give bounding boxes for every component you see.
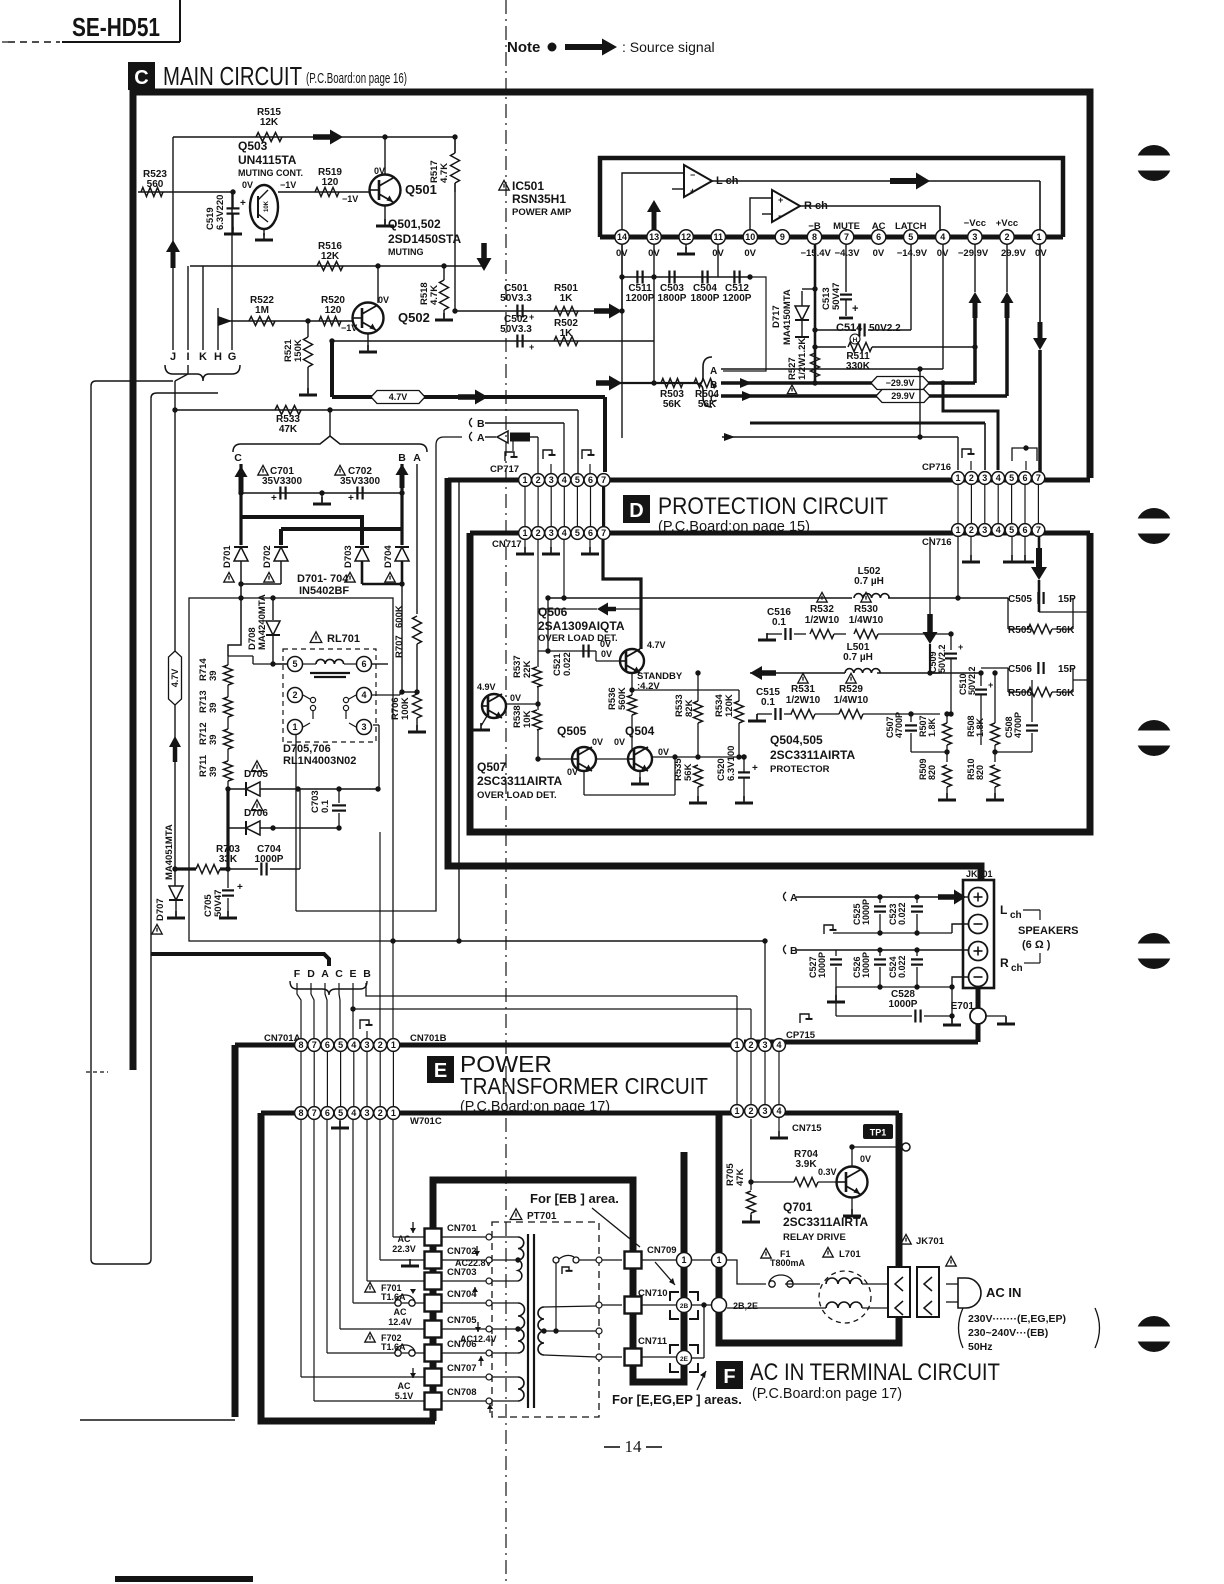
svg-text:D703: D703 xyxy=(343,545,354,568)
wire CN711 to 2E xyxy=(642,1356,676,1358)
svg-text:MUTING CONT.: MUTING CONT. xyxy=(238,168,303,178)
wire Q501 collector xyxy=(384,137,386,174)
wire thick chain D705-D706 xyxy=(226,789,229,828)
svg-text:−29.9V: −29.9V xyxy=(958,248,989,259)
svg-text:120: 120 xyxy=(322,177,339,188)
svg-text:SPEAKERS: SPEAKERS xyxy=(1018,925,1079,937)
svg-text:CN711: CN711 xyxy=(638,1336,668,1347)
wires CN715 risers xyxy=(736,1052,738,1104)
brace for nodes A B C xyxy=(697,357,712,407)
svg-text:L: L xyxy=(1000,903,1007,917)
arrow down into C501 area xyxy=(477,243,492,271)
wire Q501 emitter xyxy=(384,206,386,224)
svg-text:56K: 56K xyxy=(1056,625,1075,636)
IC501 power amp box xyxy=(600,158,1063,237)
svg-text:120K: 120K xyxy=(724,694,735,717)
capacitor C512 xyxy=(733,271,735,284)
svg-text:H: H xyxy=(853,337,858,344)
svg-text:+: + xyxy=(529,312,534,322)
svg-text:B: B xyxy=(477,418,485,430)
diode D701 xyxy=(234,547,248,561)
svg-text:CN705: CN705 xyxy=(447,1315,477,1326)
svg-text:JK701: JK701 xyxy=(916,1236,945,1247)
wires R533 R534 stubs xyxy=(697,673,699,701)
svg-text:CP715: CP715 xyxy=(786,1030,816,1041)
svg-text:2SC3311AIRTA: 2SC3311AIRTA xyxy=(770,748,855,762)
wire Q502 base row xyxy=(218,320,352,322)
ground Q504 xyxy=(639,771,641,782)
wire B descend to CP716 pin3 xyxy=(750,422,985,425)
svg-text:L701: L701 xyxy=(839,1249,861,1260)
diode D706 xyxy=(228,827,245,829)
svg-text:39: 39 xyxy=(208,766,219,777)
svg-text:2: 2 xyxy=(1004,232,1009,242)
wire relay contact 1 to A-net xyxy=(295,735,297,911)
wire chain top to relay pin5 row xyxy=(227,656,229,660)
svg-text:Q505: Q505 xyxy=(557,724,587,738)
svg-text:T1.6A: T1.6A xyxy=(381,1342,406,1352)
wire C rail thick xyxy=(721,394,1007,398)
relay coil xyxy=(316,659,344,664)
svg-text:D705: D705 xyxy=(244,769,268,780)
svg-text:−: − xyxy=(690,170,695,180)
section label D xyxy=(623,495,650,523)
svg-text:A: A xyxy=(477,432,485,444)
svg-text:39: 39 xyxy=(208,670,219,681)
relay pin 1 xyxy=(288,720,303,735)
svg-text:SE-HD51: SE-HD51 xyxy=(72,12,160,42)
svg-text:1M: 1M xyxy=(255,305,269,316)
speaker jack JK501 box xyxy=(963,880,994,988)
svg-text:1K: 1K xyxy=(560,293,574,304)
svg-text:TRANSFORMER CIRCUIT: TRANSFORMER CIRCUIT xyxy=(460,1073,708,1099)
svg-text:+: + xyxy=(240,198,246,209)
svg-text:4.7K: 4.7K xyxy=(439,163,450,183)
svg-text:D701- 704: D701- 704 xyxy=(297,573,349,585)
resistor R529 xyxy=(846,673,856,683)
svg-text:50V3.3: 50V3.3 xyxy=(500,293,532,304)
svg-text:R505: R505 xyxy=(1008,625,1032,636)
svg-text:T800mA: T800mA xyxy=(770,1258,806,1268)
capacitor C504 xyxy=(701,271,703,284)
svg-text:CN702: CN702 xyxy=(447,1246,477,1257)
inductor L701 xyxy=(823,1247,833,1257)
svg-text:F: F xyxy=(294,968,301,980)
resistor R530 xyxy=(861,592,871,602)
wire to left rail J xyxy=(91,381,218,1264)
wire right verticals xyxy=(940,633,951,635)
svg-text:1: 1 xyxy=(522,528,527,538)
wires W701C into transformer xyxy=(392,1120,394,1237)
svg-text:600K: 600K xyxy=(394,605,405,628)
svg-text:ch: ch xyxy=(1011,963,1023,974)
ground Q701 xyxy=(851,1209,853,1216)
resistor R520 xyxy=(319,317,341,326)
ground D707 xyxy=(175,911,177,918)
connector pad CN709 xyxy=(625,1252,642,1269)
svg-text:3: 3 xyxy=(982,525,987,535)
resistor R538 xyxy=(533,710,542,730)
relay RL701 dashed box xyxy=(283,649,376,742)
svg-text:50Hz: 50Hz xyxy=(968,1341,993,1353)
arrow up on J riser xyxy=(166,240,180,268)
capacitor C502 row wire xyxy=(332,340,654,342)
source arrow L out xyxy=(890,173,930,190)
wire pin13 riser xyxy=(653,244,655,341)
fuse F1 xyxy=(761,1248,771,1258)
svg-text:+: + xyxy=(271,493,277,504)
resistor R502 xyxy=(554,337,578,346)
transistor Q504 xyxy=(628,747,652,771)
svg-text:J: J xyxy=(170,351,176,363)
svg-text:−B: −B xyxy=(808,221,821,232)
relay pin 4 xyxy=(357,688,372,703)
capacitor C511 xyxy=(636,271,638,284)
svg-text:CN707: CN707 xyxy=(447,1363,477,1374)
svg-text:5: 5 xyxy=(575,528,580,538)
wire CN710 line xyxy=(602,1304,622,1306)
resistor R533 xyxy=(275,406,301,415)
arrow down to C509 xyxy=(923,614,938,644)
svg-text:2B,2E: 2B,2E xyxy=(733,1301,758,1311)
section label E xyxy=(427,1056,454,1083)
arrow C rail xyxy=(742,391,754,401)
svg-text:56K: 56K xyxy=(1056,688,1075,699)
svg-text:0V: 0V xyxy=(860,1154,871,1164)
wire Q503 base row xyxy=(138,191,232,193)
svg-text:AC12.4V: AC12.4V xyxy=(460,1334,497,1344)
svg-text:D705,706: D705,706 xyxy=(283,743,331,755)
svg-text:5: 5 xyxy=(338,1108,343,1118)
source arrow mid row xyxy=(750,666,776,680)
svg-text:AC: AC xyxy=(398,1381,411,1391)
svg-text:5: 5 xyxy=(338,1040,343,1050)
svg-text:7: 7 xyxy=(1036,525,1041,535)
diode D717 xyxy=(795,306,809,320)
svg-text:56K: 56K xyxy=(663,399,682,410)
ground symbol above CP715 xyxy=(800,1017,809,1026)
wire riser x151 lower xyxy=(150,954,152,1264)
arrow down CN716 pin7 xyxy=(1038,537,1041,548)
svg-text:H: H xyxy=(214,351,222,363)
svg-text:MA4240MTA: MA4240MTA xyxy=(257,594,268,650)
wire K riser xyxy=(202,266,204,350)
ground Q501 xyxy=(384,219,386,226)
svg-text:JK501: JK501 xyxy=(966,869,993,879)
svg-text:5: 5 xyxy=(1009,525,1014,535)
thick 4.7V drop to CP717 pin7 xyxy=(603,397,607,472)
wire A rail xyxy=(721,368,943,370)
svg-text:E: E xyxy=(434,1060,447,1082)
svg-text:1/2W10: 1/2W10 xyxy=(805,615,840,626)
node circle 2E xyxy=(677,1351,692,1366)
capacitor C702 xyxy=(356,487,358,500)
wire H riser xyxy=(217,308,219,350)
svg-text:1.8K: 1.8K xyxy=(927,717,937,737)
svg-text:10K: 10K xyxy=(264,200,270,212)
ground lower rail xyxy=(835,987,837,1000)
ground C705 xyxy=(227,911,229,918)
svg-text:29.9V: 29.9V xyxy=(1001,248,1026,259)
svg-text:1200P: 1200P xyxy=(723,293,752,304)
source arrow C501 row xyxy=(594,304,622,319)
svg-text:820: 820 xyxy=(975,765,985,780)
IC501 labels xyxy=(499,180,509,190)
wire loop around labels xyxy=(723,277,766,371)
arrow CN708 xyxy=(489,1404,491,1413)
wire D703 D704 bottoms xyxy=(361,561,364,584)
resistor R711 xyxy=(224,761,233,781)
wires CN701A to W701C risers xyxy=(300,1052,302,1106)
arrow up B rail xyxy=(396,464,409,488)
relay pin 5 xyxy=(288,657,303,672)
svg-text:22K: 22K xyxy=(522,660,533,678)
svg-text:6: 6 xyxy=(876,232,881,242)
wire relay enclosure to CN701A pin1 xyxy=(392,941,394,1038)
svg-text:13: 13 xyxy=(649,232,659,242)
wire R705 to R704 xyxy=(751,1181,758,1183)
svg-text:D707: D707 xyxy=(155,898,166,921)
svg-text:120: 120 xyxy=(325,305,342,316)
protection circuit outer border xyxy=(448,478,981,884)
resistor R518 xyxy=(440,280,449,310)
wire A with diode xyxy=(485,436,496,438)
svg-text:C505: C505 xyxy=(1008,594,1032,605)
resistor R519 xyxy=(315,188,339,197)
svg-text:35V3300: 35V3300 xyxy=(340,476,380,487)
svg-text:C: C xyxy=(335,968,343,980)
arrow on A feed xyxy=(724,433,735,441)
svg-text:+: + xyxy=(237,882,243,893)
svg-text:D: D xyxy=(629,500,643,522)
wire CN711 line xyxy=(602,1356,622,1358)
svg-text:0V: 0V xyxy=(374,166,385,176)
svg-text:9: 9 xyxy=(780,232,785,242)
thick rail to D703 xyxy=(241,517,362,545)
svg-text:35V3300: 35V3300 xyxy=(262,476,302,487)
svg-text:PROTECTOR: PROTECTOR xyxy=(770,764,830,775)
svg-text:12: 12 xyxy=(681,232,691,242)
svg-text:12.4V: 12.4V xyxy=(388,1317,412,1327)
resistor R536 xyxy=(628,695,637,715)
wire opamp L input xyxy=(622,173,684,230)
svg-text:56K: 56K xyxy=(683,763,694,781)
arrow CN709 to CN710 xyxy=(655,1262,675,1285)
wire pin4 drop to A xyxy=(942,244,944,369)
svg-text:ch: ch xyxy=(1010,910,1022,921)
svg-text:D706: D706 xyxy=(244,808,268,819)
svg-text:Q504: Q504 xyxy=(625,724,655,738)
E inner left edge and bottom xyxy=(261,1113,435,1421)
wire E letter riser to pin4 xyxy=(352,983,354,1038)
wire I riser xyxy=(187,266,189,350)
svg-text:2: 2 xyxy=(536,475,541,485)
wire C521 row xyxy=(538,650,596,652)
svg-text:0V: 0V xyxy=(601,649,612,659)
capacitor C501 row wire xyxy=(455,310,594,312)
diode D708 xyxy=(272,598,274,620)
diode D717 wire xyxy=(802,288,815,290)
svg-text:0.022: 0.022 xyxy=(562,652,573,676)
thick 4.7V horizontal xyxy=(332,395,605,399)
svg-text:(P.C.Board:on page 17): (P.C.Board:on page 17) xyxy=(752,1385,902,1402)
connector pad CN710 xyxy=(625,1297,642,1314)
wire R516 row xyxy=(190,265,486,267)
ground center C701 C702 xyxy=(321,493,323,502)
svg-text:2: 2 xyxy=(536,528,541,538)
grounds below CN717 xyxy=(524,540,526,552)
wire CN709 to circle xyxy=(642,1259,676,1261)
rail CN717/CN716 xyxy=(470,531,1090,536)
svg-text:0V: 0V xyxy=(744,248,756,259)
svg-text:1: 1 xyxy=(716,1255,721,1265)
svg-text:4.7K: 4.7K xyxy=(429,285,440,305)
svg-text:5: 5 xyxy=(1009,473,1014,483)
arrow on 4.7V xyxy=(458,390,488,405)
svg-text:R: R xyxy=(1000,956,1009,970)
ground R705 xyxy=(750,1215,752,1222)
svg-text:4: 4 xyxy=(562,475,567,485)
svg-text:2SD1450STA: 2SD1450STA xyxy=(388,232,461,246)
svg-text:G: G xyxy=(228,351,237,363)
svg-text:1: 1 xyxy=(955,473,960,483)
svg-text:820: 820 xyxy=(927,765,937,780)
svg-text:5: 5 xyxy=(575,475,580,485)
svg-text:IN5402BF: IN5402BF xyxy=(299,585,349,597)
ground C515 xyxy=(756,714,758,719)
wire R535 bottom xyxy=(697,757,699,765)
svg-text:230V·······(E,EG,EP): 230V·······(E,EG,EP) xyxy=(968,1313,1066,1325)
wire Q507 emitter xyxy=(481,716,487,726)
svg-text:560K: 560K xyxy=(617,687,628,710)
diode D703 xyxy=(355,547,369,561)
svg-text:MUTING: MUTING xyxy=(388,247,424,257)
svg-text:−Vcc: −Vcc xyxy=(964,218,986,229)
svg-text:1000P: 1000P xyxy=(255,854,284,865)
ground C528 node xyxy=(949,1013,954,1018)
ground R535 xyxy=(697,796,699,803)
svg-text:A: A xyxy=(710,366,717,377)
svg-text:C: C xyxy=(234,452,242,464)
wire pin14 drop xyxy=(621,244,623,311)
svg-text:3: 3 xyxy=(762,1040,767,1050)
svg-text:3: 3 xyxy=(364,1040,369,1050)
resistor R511 xyxy=(815,346,846,348)
svg-text:E701: E701 xyxy=(951,1001,975,1012)
resistor R537 xyxy=(533,667,542,687)
relay pin 3 xyxy=(357,720,372,735)
svg-text:(P.C.Board:on page 15): (P.C.Board:on page 15) xyxy=(658,518,810,535)
ground Q502 xyxy=(367,345,369,352)
ground pin12 xyxy=(685,244,687,252)
svg-text:15P: 15P xyxy=(1058,664,1076,675)
svg-text:0.022: 0.022 xyxy=(897,955,907,978)
wire pin11 drop xyxy=(717,244,719,277)
wire B rail down xyxy=(400,464,403,545)
svg-text:7: 7 xyxy=(601,475,606,485)
svg-text:D702: D702 xyxy=(262,545,273,568)
wire CN710 to 2B xyxy=(642,1304,676,1306)
svg-text:+: + xyxy=(988,680,993,690)
svg-text:RELAY DRIVE: RELAY DRIVE xyxy=(783,1232,846,1243)
op-amp R ch xyxy=(772,190,800,222)
svg-text:1000P: 1000P xyxy=(889,999,918,1010)
svg-text:AC: AC xyxy=(872,221,886,232)
wire JK501 minus R xyxy=(952,977,968,987)
protection circuit inner box xyxy=(470,533,1090,832)
net label -29.9V xyxy=(871,377,929,390)
JK501 terminal + R xyxy=(969,942,988,961)
svg-text:CN717: CN717 xyxy=(492,539,522,550)
svg-text:PROTECTION CIRCUIT: PROTECTION CIRCUIT xyxy=(658,493,888,520)
relay contact left xyxy=(303,695,310,699)
svg-text:0.7 µH: 0.7 µH xyxy=(854,576,884,587)
brace under JIKHG xyxy=(165,365,240,381)
svg-text:0V: 0V xyxy=(648,248,660,259)
wires L701 to JK701 xyxy=(862,1283,888,1285)
source signal arrow R515 row xyxy=(313,130,343,145)
svg-text:7: 7 xyxy=(844,232,849,242)
thick rail JK501 to CP715 xyxy=(744,1040,978,1045)
svg-text:D704: D704 xyxy=(383,545,394,568)
svg-text:50V2.2: 50V2.2 xyxy=(869,323,901,334)
svg-text:2: 2 xyxy=(292,690,297,700)
svg-text:+: + xyxy=(958,642,963,652)
svg-text:6: 6 xyxy=(361,659,366,669)
svg-text:AC IN TERMINAL CIRCUIT: AC IN TERMINAL CIRCUIT xyxy=(750,1359,1000,1386)
svg-text:2: 2 xyxy=(378,1040,383,1050)
svg-text:MUTE: MUTE xyxy=(833,221,860,232)
svg-text:MAIN CIRCUIT: MAIN CIRCUIT xyxy=(163,61,302,91)
svg-text:CN710: CN710 xyxy=(638,1288,668,1299)
node junction Q501 collector xyxy=(382,134,387,139)
wire upper filter row xyxy=(548,597,1008,599)
svg-text:6: 6 xyxy=(325,1040,330,1050)
svg-text:0V: 0V xyxy=(658,747,669,757)
wire G riser xyxy=(231,192,233,350)
svg-text:8: 8 xyxy=(298,1108,303,1118)
capacitor C701 xyxy=(279,487,281,500)
thick 4.7V riser through pin7 xyxy=(602,487,605,526)
svg-text:CP716: CP716 xyxy=(922,462,951,473)
svg-text:POWER AMP: POWER AMP xyxy=(512,207,572,218)
svg-text:14: 14 xyxy=(617,232,627,242)
svg-text:+: + xyxy=(852,303,858,315)
transformer PT701 label xyxy=(510,1209,522,1220)
wire pin8 drop thick xyxy=(814,244,817,383)
svg-text:2: 2 xyxy=(378,1108,383,1118)
svg-text:C: C xyxy=(134,67,148,89)
svg-text:4: 4 xyxy=(361,690,366,700)
svg-text:1: 1 xyxy=(1037,232,1042,242)
wires CP717-CN717 risers xyxy=(524,487,526,526)
svg-text:3: 3 xyxy=(762,1106,767,1116)
svg-text:CN701B: CN701B xyxy=(410,1033,447,1044)
wire resistor chain xyxy=(227,660,229,665)
svg-text:RSN35H1: RSN35H1 xyxy=(512,192,566,206)
wires CP716-CN716 risers xyxy=(957,485,959,523)
svg-text:14: 14 xyxy=(625,1437,643,1456)
wire opamp L output xyxy=(712,180,1040,182)
svg-text:10K: 10K xyxy=(522,710,533,728)
JK501 terminal - R xyxy=(969,968,988,987)
svg-text:12K: 12K xyxy=(260,117,279,128)
resistor R714 xyxy=(224,665,233,685)
svg-text:+: + xyxy=(752,763,758,774)
wire Q504 node to R529 row xyxy=(744,713,757,715)
svg-text:1/2W10: 1/2W10 xyxy=(786,695,821,706)
svg-text:7: 7 xyxy=(312,1108,317,1118)
